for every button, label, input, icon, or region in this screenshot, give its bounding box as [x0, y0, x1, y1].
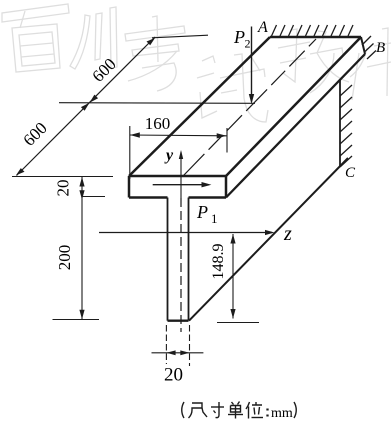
beam top-left receding edge — [129, 37, 270, 176]
： — [266, 409, 268, 417]
flange right edge at wall (B corner) — [361, 37, 365, 54]
600/600 oblique dimension line — [17, 37, 156, 176]
svg-text:2: 2 — [245, 37, 251, 51]
svg-text:P: P — [196, 202, 208, 222]
svg-text:148.9: 148.9 — [210, 244, 227, 280]
寸 — [211, 406, 224, 408]
watermark 软 — [278, 29, 349, 93]
svg-text:mm: mm — [271, 406, 293, 421]
y axis — [180, 152, 182, 198]
svg-text:P: P — [233, 27, 245, 47]
watermark 百 — [2, 4, 69, 72]
svg-text:20: 20 — [164, 365, 183, 386]
svg-text:A: A — [257, 19, 268, 36]
svg-text:y: y — [164, 147, 174, 164]
watermark 川 — [70, 7, 117, 69]
T-section front face: flange — [128, 176, 131, 198]
beam top face: front edge / flange top edge — [129, 175, 226, 178]
wall hatching above top edge — [272, 25, 354, 36]
svg-text:200: 200 — [55, 245, 74, 271]
（ — [182, 402, 184, 418]
svg-text:B: B — [376, 40, 385, 56]
148.9 dimension — [232, 234, 234, 319]
svg-text:20: 20 — [54, 180, 73, 197]
svg-text:600: 600 — [88, 54, 119, 85]
T-section front face: web — [167, 198, 169, 321]
web bottom receding edge to wall (through C) — [189, 158, 348, 321]
160 dimension — [130, 134, 227, 137]
位 — [246, 402, 250, 409]
wall top edge A-B — [270, 36, 361, 39]
P1 force arrow — [153, 184, 209, 186]
200 dimension (web height) — [81, 200, 83, 320]
尺 — [189, 403, 203, 418]
extension line web bottom left — [53, 319, 100, 321]
z axis — [99, 232, 272, 234]
P2 force arrow — [251, 27, 253, 102]
hatching right of wall vertical edge — [340, 85, 352, 167]
extension line flange bottom left — [82, 196, 105, 198]
caption 尺寸单位 mm — [182, 402, 268, 419]
20 bottom dimension (web width) — [165, 325, 167, 364]
hatching right of B edge — [362, 36, 376, 59]
svg-text:z: z — [283, 223, 292, 245]
watermark 试 — [197, 54, 268, 122]
extension line at web bottom right — [217, 322, 259, 324]
watermark 件 — [350, 28, 391, 100]
flange bottom receding edge to wall — [226, 54, 365, 198]
单 — [232, 402, 240, 405]
dashed centerline on top face — [184, 39, 317, 176]
20 left dimension (flange thickness) — [81, 177, 83, 200]
extension line at wall top (A level) — [152, 35, 208, 38]
svg-text:1: 1 — [211, 211, 218, 226]
svg-text:160: 160 — [145, 114, 171, 133]
watermark 考 — [125, 16, 185, 91]
wall vertical edge (web right at wall) — [339, 80, 341, 166]
extension line at mid-span (P2 level) — [59, 102, 255, 105]
extension line at front top (flange top level) — [12, 176, 113, 178]
svg-text:C: C — [345, 165, 356, 181]
beam top-right receding edge — [226, 37, 361, 176]
